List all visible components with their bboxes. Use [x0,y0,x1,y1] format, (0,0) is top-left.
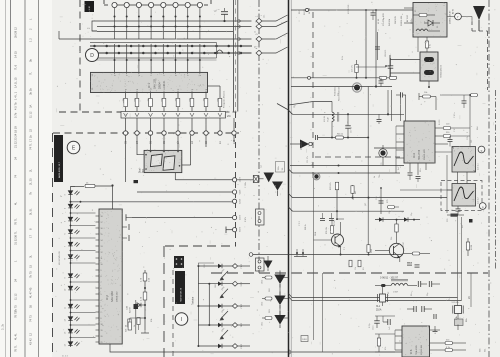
display module body (Dual-Anzeige) [144,150,182,172]
LED diode D6 [68,255,79,259]
wire end circle 1025 [233,190,237,194]
IC2 left pin 19 [96,323,100,325]
wire from pin P4 down [150,7,152,39]
svg-text:4: 4 [101,300,102,302]
IC1 bottom pin wire [125,93,127,99]
svg-text:22n: 22n [420,169,422,172]
svg-text:1021: 1021 [238,227,240,233]
caps pair y219 [320,217,325,219]
resistor R54 vertical [466,242,469,250]
connector pin circle P1 [112,2,117,7]
caps bottom cluster [407,262,412,264]
resistor R15 under IC1 [190,98,194,106]
wire IC2 bottom to rail [110,344,160,352]
bus dot row A 12 [240,45,243,48]
resistors right of IC5 [445,342,453,345]
svg-text:R4 119: R4 119 [304,9,306,15]
svg-text:L15 1%: L15 1% [352,65,354,72]
svg-text:GM 105: GM 105 [395,15,397,24]
wire chevron at ribbon [239,25,242,29]
wire F2 left feed [400,189,452,191]
dashed border vertical x173 (keyboard inner) [172,270,174,357]
dashed segment between pins [129,4,137,6]
keyboard out wire 1 [238,265,250,267]
svg-text:R33 47k: R33 47k [330,183,332,190]
svg-text:C2 470µ 63V: C2 470µ 63V [383,13,385,26]
bus dot row B 9 [203,52,206,55]
wire strip to E-row [163,118,165,131]
svg-text:LD 10.5/11.30: LD 10.5/11.30 [59,251,61,265]
wire from pin P6 down [175,7,177,39]
vertical wire x470 [469,120,471,160]
IF coil bottom wire [331,121,333,137]
resistor R11 under IC1 [135,98,139,106]
svg-text:SD3: SD3 [269,309,271,313]
dashed antenna box corner [471,21,473,31]
wire from pin P5 down [162,7,164,39]
oscillator coil wires [375,285,391,287]
main board bus echo line [290,0,292,357]
connector pin circle P3 [136,2,141,7]
svg-text:5: 5 [101,294,102,296]
wire end circle 1021 [233,228,237,232]
svg-text:1-10: 1-10 [89,5,91,10]
margin rule line 1 [5,0,7,357]
resistor RD3 [265,297,272,300]
capacitor stub y217.6 [126,217,132,219]
wire from pin P2 down [126,7,128,39]
bus dot row A 8 [191,45,194,48]
svg-text:U24 L13: U24 L13 [385,50,387,57]
IC2 display driver body [99,209,122,344]
wire rail top elbow [71,185,76,187]
tuner module A resistor [419,14,427,17]
resistor R16 and wire y137.5 [314,135,316,140]
capacitor C12 [388,65,394,67]
bus line y42.5 [90,42,217,44]
bus dot row B 11 [227,52,230,55]
svg-text:AT 102: AT 102 [406,14,409,22]
bus dot row A 4 [142,45,145,48]
resistor R42 [443,127,451,130]
wire y77.8 [291,77,390,79]
IC2 left pin 22 [96,341,100,343]
IC3 bottom-left wire [395,158,397,173]
connector pin circle P8 [197,2,202,7]
IC1 top pin dot [175,59,177,61]
keyboard out wire 3 [238,305,250,307]
wire diode rail to IC2 [71,262,96,264]
resistor R43 [443,135,451,138]
svg-text:1023: 1023 [238,199,240,205]
audio risers to F2 [457,217,459,306]
svg-text:74 73: 74 73 [29,315,33,322]
svg-text:29102-139: 29102-139 [424,149,426,160]
IC2 left pin 4 [96,233,100,235]
IC1 top pin wire [138,44,140,72]
wire diode rail to IC2 [71,312,96,314]
wire strip to E-row [177,118,179,131]
resistor RD4 [265,317,272,320]
keyboard out wire 5 [238,345,250,347]
filter module B pill 2 [424,70,434,75]
wire E6 to display [150,135,152,150]
svg-text:R 47k: R 47k [245,217,247,222]
trimmer wires [457,314,459,320]
svg-text:2: 2 [101,312,102,314]
svg-text:17 1b: 17 1b [29,135,33,142]
junction dot on P8 wire [199,16,201,18]
keyboard switch lever 3 [221,311,229,319]
wire end circle 1027 [233,178,237,182]
wire resistor to strip 5 [191,107,193,112]
resistor R14 under IC1 [176,98,180,106]
wire y10 (tuner feed) [291,9,413,11]
strip crossing mark [218,113,222,117]
dashed border vertical x164 (keyboard box) [163,246,165,357]
wire y352 br [375,351,395,353]
svg-text:29301-101: 29301-101 [401,15,403,26]
svg-text:7b: 7b [29,192,33,195]
keyboard rail vertical [197,266,199,346]
svg-text:C115: C115 [373,326,375,330]
vertical wire x471 right [470,273,472,307]
IC2 left pin 15 [96,299,100,301]
wire y197.6 from bus [289,194,293,198]
keyboard diamond K3 [232,304,237,309]
junction dot 2 on P3 wire [138,26,140,28]
resistor R51 [451,214,459,217]
display pin marks [150,151,152,153]
down diode arrow 2 [274,275,285,285]
dashed border horizontal y112 left stub [59,111,121,113]
dash-dot border vertical x489 (right edge) [488,0,490,357]
bus dot row B 10 [215,52,218,55]
junction dot on P3 wire [138,16,140,18]
svg-text:5 7b: 5 7b [14,112,18,118]
junction dot 2 on P7 wire [187,26,189,28]
resistor R12 under IC1 [149,98,153,106]
svg-text:15: 15 [101,234,103,236]
dashed segment between pins [166,4,174,6]
svg-text:C 100n: C 100n [245,182,247,188]
wire resistor to strip 0 [125,107,127,112]
IC1 bottom pin wire [208,85,221,87]
wire diode 2 to bus [283,277,289,279]
keyboard out wire 2 [238,283,250,285]
junction dot 2 on P8 wire [199,26,201,28]
svg-text:12: 12 [29,333,33,336]
resistor RC1 [143,273,147,281]
slant join y26.5 [262,21,288,27]
capacitor C61 [417,281,419,287]
wire diode rail to IC2 [71,212,96,214]
resistor R53 [412,252,420,255]
svg-text:7b 75: 7b 75 [29,271,33,278]
connector housing lower 2 [256,258,265,271]
wire E4 to display [177,135,179,150]
IC2 left pin 14 [96,293,100,295]
svg-text:79301-025.91: 79301-025.91 [441,64,443,78]
wire diode rail to IC2 [71,237,96,239]
bus dot row B 7 [179,52,182,55]
connector pin circle P5 [161,2,166,7]
slant join y21 [262,15,288,21]
wire y39 horizontal [59,38,252,40]
svg-text:1 2: 1 2 [29,38,33,42]
vertical wire x376 [375,10,377,87]
IC2 left pin 3 [96,227,100,229]
display digit 1 outline [150,154,162,166]
diode D51 [379,217,383,221]
IC1 top pin wire [187,44,189,72]
junction dot on P4 wire [150,16,152,18]
svg-text:4L 4L: 4L 4L [14,333,18,340]
IF slant wire 1 [289,101,333,105]
svg-text:BC547: BC547 [403,241,405,248]
resistor R12 between modules [425,41,428,48]
svg-text:18: 18 [101,216,103,218]
wire y173 [289,169,293,173]
wire top of IC2 riser [112,186,114,210]
wire y185.5 with resistor R21 [71,185,85,187]
svg-text:7L 6: 7L 6 [14,64,18,70]
svg-text:47k: 47k [385,347,387,350]
wire chevron at ribbon [239,37,242,41]
wire resistor to strip 2 [150,107,152,112]
svg-text:(2C: (2C [365,202,367,206]
triangle label box [276,162,285,173]
svg-text:SAA 1060: SAA 1060 [111,291,114,302]
IC1 bottom pin wire [191,93,193,99]
transistor blob T41 [380,150,385,155]
IC2 left pin 11 [96,275,100,277]
svg-text:1061: 1061 [204,264,206,268]
svg-text:R 2.2k: R 2.2k [305,224,307,230]
svg-text:74 7L: 74 7L [29,143,33,150]
resistor R34 vertical [367,245,370,253]
resistor R17 under IC1 [218,98,222,106]
IF coil L1 [332,112,334,115]
IC1 top pin dot [150,59,152,61]
section marker circle I [175,313,188,326]
svg-text:10L: 10L [282,168,284,171]
svg-text:8: 8 [101,276,102,278]
LED diode D1 [68,191,79,195]
dashed border horizontal y133 (connector row) [53,132,239,134]
LED diode D10 [68,317,79,321]
junction dot on P6 wire [175,16,177,18]
svg-text:76 7L: 76 7L [14,218,18,225]
IC1 pin ticks bottom [125,91,127,93]
svg-text:1025: 1025 [238,190,240,196]
bus line y53 [90,52,252,54]
IC2 left pin 18 [96,317,100,319]
capacitor C42 [448,138,453,140]
chain bottom tee [141,332,149,334]
IC2 left pin 21 [96,335,100,337]
wire y316 bottomleft [375,315,395,317]
wire diode rail to IC2 [71,281,96,283]
bus right close vertical [216,43,218,59]
signal arrow marker [300,140,309,149]
main board bus heavy line [288,0,290,357]
keyboard diode KD2 [218,282,222,286]
IC2 left pin 20 [96,329,100,331]
IC1 top pin dot [114,59,116,61]
display bottom pin wire [174,173,176,180]
filter module B body [420,52,438,81]
svg-text:Frequenz-Massst.: Frequenz-Massst. [223,90,226,108]
black component (IC socket) [174,256,184,268]
bottom-left filled triangle [264,261,273,269]
strip crossing mark [162,113,166,117]
LED diode D4 [68,230,79,234]
wire diode rail to IC2 [71,299,96,301]
dashed segment between pins [141,4,149,6]
svg-text:C7b: C7b [467,137,469,140]
keyboard dot top [197,265,199,267]
keyboard out wire 4 [238,324,250,326]
wire bus y201.3 [71,201,234,203]
connector pin circle P7 [185,2,190,7]
svg-text:8.2k: 8.2k [435,330,437,334]
svg-text:11b: 11b [355,267,357,270]
bus dot row A 5 [154,45,157,48]
branch diode BZX [134,304,145,306]
wire chain x280 [279,284,281,295]
wire bus y217.6 [132,217,233,219]
svg-text:2L: 2L [29,169,33,172]
edge connector circle E5 [162,131,166,135]
black label top (board code) [85,1,95,12]
slant join y39 [262,33,288,39]
capacitor C62 [428,281,430,287]
svg-text:22n: 22n [411,293,413,296]
svg-text:6: 6 [101,288,102,290]
svg-text:76 7L: 76 7L [14,345,18,352]
IC1 pin ticks top [114,72,116,74]
IC1 top pin wire [150,44,152,72]
IC1 top pin wire [126,44,128,72]
audio line y297.5 [292,297,458,299]
caps cluster mid [413,306,415,312]
resistor R33v top [335,182,338,190]
svg-text:R 1k: R 1k [342,56,344,60]
resistor R52 vertical [395,224,398,232]
wire from pin P8 down [199,7,201,39]
svg-text:29501-103: 29501-103 [421,344,423,355]
svg-text:C 47n: C 47n [454,113,456,118]
wire strip to E-row [219,118,221,131]
svg-text:15: 15 [29,265,33,268]
svg-text:7L: 7L [29,72,33,75]
wire bottom rail long [160,351,430,353]
wire x136 vertical [135,300,137,304]
svg-text:1L5: 1L5 [471,140,473,143]
strip crossing mark [124,113,128,117]
svg-text:BC547: BC547 [334,219,336,226]
wire resistor to strip 3 [163,107,165,112]
capacitor C63 [387,319,389,325]
module A bottom pins [417,37,419,52]
wire y26.5 horizontal [97,26,252,28]
svg-text:20: 20 [101,336,103,338]
svg-text:84 T0B: 84 T0B [309,7,311,14]
wire diode 4 to bus [283,317,289,319]
wire y31.5 horizontal [97,31,233,33]
wire strip to E-row [125,118,127,131]
svg-text:29504-: 29504- [159,81,162,89]
edge connector circle E7 [135,131,139,135]
svg-text:XL1: XL1 [376,306,381,308]
audio line y300.5 [292,300,462,302]
dash-dot border vertical x259 [258,0,260,273]
IC2 left pin 12 [96,281,100,283]
svg-text:L2 33: L2 33 [378,18,380,24]
junction dot 2 on P4 wire [150,26,152,28]
svg-text:29504-102: 29504-102 [117,291,119,302]
wire diode 3 to bus [283,298,289,300]
svg-text:4L 47 45: 4L 47 45 [29,287,33,298]
junction dot on P2 wire [126,16,128,18]
IC2 left pin 16 [96,305,100,307]
svg-text:3L: 3L [29,255,33,258]
bottom rail chevron [288,349,292,355]
crystal wires [382,287,384,294]
resistor R36v top [351,186,354,194]
IC2 left pin 2 [96,221,100,223]
svg-text:21 22 23 24: 21 22 23 24 [14,133,18,148]
IC5 right pins [430,329,441,331]
wire from pin P3 down [138,7,140,39]
connector housing lower 1 [256,209,265,225]
IC2 left pin 10 [96,269,100,271]
connector housing pins 2 [258,260,261,263]
svg-text:Dual-: Dual- [140,167,142,173]
oscillator coil L51 [391,283,395,285]
right-top vertical wire pair [377,32,379,60]
LED diode D12 [68,342,79,346]
svg-text:3: 3 [101,306,102,308]
IC2 left pin 13 [96,287,100,289]
resistor RC5 [128,322,131,330]
strip crossing mark [190,113,194,117]
svg-text:S: S [468,296,470,300]
capacitor C51 [456,208,461,210]
svg-text:81L: 81L [363,267,365,270]
wire strip to E-row [205,118,207,131]
edge connector circle E2 [204,131,208,135]
bus line y46 [90,45,252,47]
wire y334 [375,333,395,335]
svg-text:17: 17 [29,235,33,238]
svg-text:102b: 102b [262,280,264,284]
svg-text:R1: R1 [415,10,417,12]
wire diode rail to IC2 [71,250,96,252]
LED diode D8 [68,286,79,290]
bus dot row B 1 [105,52,108,55]
keyboard rail 2 vertical [208,284,210,325]
svg-text:R76: R76 [387,200,389,203]
IC1 top pin wire [199,44,201,72]
filter interconnect wires [457,172,459,184]
dashed border vertical x52.5 (left main) [52,133,54,357]
wire from pin P7 down [187,7,189,39]
bus line y60 [90,59,217,61]
module B left wires [390,59,420,61]
svg-text:4L: 4L [14,202,18,205]
